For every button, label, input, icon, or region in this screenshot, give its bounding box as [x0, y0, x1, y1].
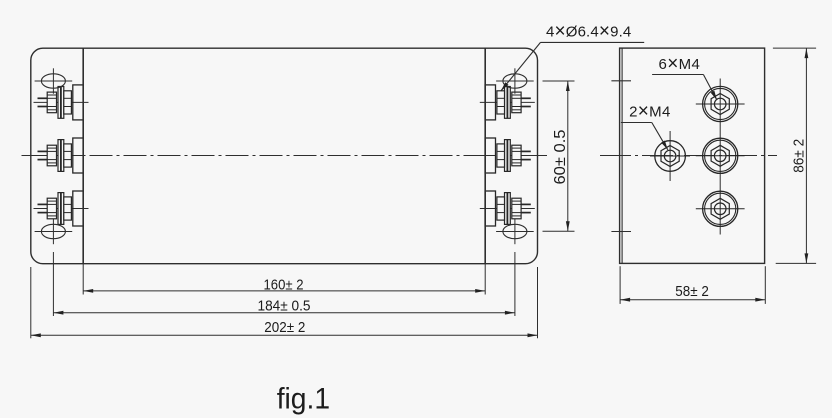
svg-text:6×M4: 6×M4: [659, 54, 701, 75]
svg-text:4×Ø6.4×9.4: 4×Ø6.4×9.4: [546, 21, 631, 42]
svg-text:160± 2: 160± 2: [264, 276, 304, 293]
svg-text:184± 0.5: 184± 0.5: [258, 297, 311, 314]
svg-text:202± 2: 202± 2: [264, 319, 305, 336]
svg-text:fig.1: fig.1: [277, 383, 330, 416]
svg-text:60± 0.5: 60± 0.5: [552, 130, 569, 185]
svg-text:58± 2: 58± 2: [675, 283, 709, 300]
svg-text:86± 2: 86± 2: [790, 139, 807, 173]
svg-text:2×M4: 2×M4: [629, 101, 671, 122]
